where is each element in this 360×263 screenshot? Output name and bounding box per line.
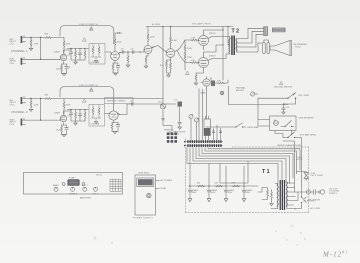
- ground switch S2: [258, 93, 296, 105]
- svg-text:10K: 10K: [217, 81, 221, 83]
- cap on drop line: [162, 119, 165, 120]
- ground under V1A: [62, 74, 66, 76]
- svg-text:PILOT LIGHT: PILOT LIGHT: [311, 175, 324, 177]
- junction dots tone: [70, 48, 71, 49]
- svg-text:450V: 450V: [246, 192, 251, 194]
- ext amp switch: [283, 132, 298, 138]
- cathode resistor R4 + cap: [61, 64, 72, 74]
- input jack J1: [21, 35, 26, 43]
- resistor R12 68K: [44, 95, 52, 100]
- tone box ch1: [89, 44, 105, 65]
- svg-text:UNDER CHASSIS CONN.: UNDER CHASSIS CONN.: [277, 144, 302, 147]
- coupling cap C4: [131, 49, 135, 54]
- speaker plug pins: [263, 40, 270, 54]
- wire from output ground to switch: [229, 86, 289, 105]
- tone cap C11: [67, 110, 73, 118]
- svg-text:VOLUME: VOLUME: [91, 123, 100, 125]
- svg-text:POWER SUPPLY: POWER SUPPLY: [133, 218, 153, 220]
- input jack J2: [21, 57, 26, 65]
- svg-text:FUSE: FUSE: [161, 188, 167, 190]
- knob BASS: [53, 184, 59, 191]
- wires strip to B+ bus: [190, 148, 244, 187]
- low cut arc channel 1: [60, 26, 114, 44]
- grid resistor lower 6V6: [191, 60, 199, 63]
- wire to plate node ch2: [41, 98, 164, 100]
- dashed chassis border right: [308, 147, 310, 213]
- V2B plate feed: [113, 105, 115, 108]
- terminal strip row 2: [184, 144, 223, 147]
- ps box outline: [135, 175, 156, 215]
- tone network ch1 top rail: [67, 48, 89, 50]
- svg-text:LOW CUT SWITCH: LOW CUT SWITCH: [79, 24, 98, 26]
- ground switch cap to gnd: [282, 104, 296, 114]
- ground under V1B: [62, 135, 66, 137]
- tube V2B: [109, 108, 120, 123]
- knob TREBLE: [69, 187, 78, 195]
- input jack J3 labels: [10, 100, 17, 106]
- ch2 output wire: [118, 104, 163, 115]
- svg-text:100K: 100K: [172, 40, 177, 42]
- connector label dark: [272, 28, 286, 33]
- svg-text:AC CORD: AC CORD: [311, 207, 321, 210]
- tone resistor R5: [75, 49, 77, 61]
- can capacitor: [203, 116, 210, 140]
- bias feed wires down: [199, 89, 207, 141]
- master volume pot: [158, 102, 166, 109]
- input jack J1 labels: [10, 39, 17, 45]
- bias resistors right: [217, 80, 228, 84]
- tone bottom rail ch2: [71, 117, 85, 123]
- plate resistor R13: [63, 99, 71, 112]
- svg-text:10K: 10K: [197, 183, 201, 185]
- output connector hatched: [264, 27, 268, 36]
- pilot lamp small 2: [82, 183, 85, 186]
- wire box to V2 grid: [105, 51, 111, 53]
- svg-text:12AX7: 12AX7: [54, 51, 61, 54]
- bus resistor 2: [215, 183, 224, 187]
- filter cap 3: [223, 185, 235, 201]
- V2 plate resistor: [114, 37, 122, 49]
- svg-text:EXT. SPKR.: EXT. SPKR.: [299, 95, 311, 97]
- svg-text:450V: 450V: [192, 192, 197, 194]
- note text: [169, 131, 186, 136]
- tone cap C2: [78, 49, 82, 61]
- wire plate to tone network: [64, 49, 71, 54]
- svg-text:68K: 68K: [45, 95, 49, 97]
- T1 leads: [271, 183, 302, 209]
- tone cap C1: [67, 49, 73, 57]
- svg-text:CATH. BIAS: CATH. BIAS: [247, 126, 259, 129]
- svg-text:CHANNEL 2: CHANNEL 2: [11, 111, 28, 114]
- terminal strip row 1: [184, 140, 223, 143]
- fan wire 1: [187, 148, 278, 184]
- svg-text:GROUND SWITCH: GROUND SWITCH: [274, 87, 293, 89]
- tone bottom rail + ground: [71, 56, 85, 62]
- wire down to line reverse: [258, 98, 270, 126]
- line reverse box: [270, 116, 297, 131]
- B+ drop rail: [162, 27, 164, 126]
- AC plug: [319, 190, 325, 194]
- svg-text:CH 1: CH 1: [10, 43, 16, 45]
- screen feed wires: [204, 27, 224, 81]
- plate wires to T2: [210, 37, 230, 60]
- svg-text:12AX7: 12AX7: [54, 112, 61, 115]
- T2 core: [231, 36, 235, 56]
- wire J4: [26, 119, 60, 121]
- svg-text:B+ 385V: B+ 385V: [152, 24, 161, 26]
- B+ to T2 center tap: [228, 27, 230, 46]
- label speaker: [294, 43, 308, 49]
- knob VOLUME 2: [93, 187, 100, 195]
- T1 core: [280, 180, 285, 210]
- svg-text:LINE REVERSE: LINE REVERSE: [299, 118, 315, 120]
- svg-text:22K: 22K: [215, 183, 219, 185]
- ps box leads: [156, 179, 173, 190]
- junction dots coupling: [127, 51, 128, 52]
- triangle marker bias: [186, 71, 190, 74]
- bias resistor 2 left of T1: [270, 190, 274, 206]
- svg-text:4.7M: 4.7M: [34, 44, 39, 46]
- T1 secondary winding: [286, 182, 288, 209]
- svg-text:6V6 AMPLIFIER: 6V6 AMPLIFIER: [192, 23, 211, 26]
- tone resistor R15: [75, 110, 77, 122]
- wire J1 to grid node: [26, 37, 41, 39]
- tone box internals: [91, 44, 102, 64]
- cathode R14: [61, 125, 69, 135]
- tube V4 6V6 upper: [199, 33, 211, 48]
- wire to plate node: [41, 37, 65, 39]
- V3 plate resistor: [147, 27, 155, 42]
- svg-text:220K: 220K: [187, 48, 192, 50]
- svg-text:HTRS.: HTRS.: [297, 159, 304, 161]
- svg-text:100K: 100K: [66, 44, 71, 46]
- ground G1: [29, 48, 33, 50]
- tremolo box: [105, 98, 134, 104]
- standby switch on cathode line: [206, 123, 259, 129]
- fan wire 7: [208, 148, 300, 171]
- fan wire 4: [199, 148, 290, 184]
- pilot lamp small: [62, 183, 65, 186]
- svg-text:100K: 100K: [117, 42, 122, 44]
- fuse F1: [302, 190, 317, 203]
- B+ rail top: [146, 26, 233, 28]
- svg-text:INTENSITY SPEED: INTENSITY SPEED: [107, 101, 126, 103]
- node vertical ch2: [31, 99, 41, 121]
- triangle marker 2: [83, 38, 87, 41]
- caps marks on verticals: [212, 131, 222, 132]
- pots above strip: [189, 114, 199, 140]
- filter cap 2: [206, 185, 218, 201]
- input jack J4 labels: [10, 120, 17, 126]
- triangle marker: [90, 27, 94, 30]
- tube V3: [144, 41, 154, 56]
- fuse in box: [274, 119, 279, 125]
- label 117V supply: [329, 189, 340, 195]
- low cut arc channel 2: [60, 87, 114, 105]
- coupling cap ch2: [130, 101, 134, 106]
- svg-text:CH 2: CH 2: [10, 124, 16, 126]
- svg-text:ADJUST: ADJUST: [236, 89, 245, 92]
- svg-text:T 1: T 1: [262, 169, 270, 175]
- V2 cathode: [112, 63, 120, 75]
- ps fuse holder: [147, 193, 152, 198]
- svg-text:68K: 68K: [45, 34, 49, 36]
- svg-text:BASS: BASS: [53, 184, 59, 187]
- svg-text:LOW CUT SWITCH: LOW CUT SWITCH: [79, 85, 98, 87]
- knob VOLUME 1: [82, 185, 89, 191]
- wire plate to tone ch2: [64, 110, 71, 115]
- svg-text:6V6GT: 6V6GT: [209, 56, 216, 58]
- svg-text:CH 2: CH 2: [10, 104, 16, 106]
- filter cap 1: [187, 185, 199, 201]
- bias cap hatched: [210, 78, 218, 86]
- spare lug stub: [174, 100, 182, 130]
- svg-text:4.7M: 4.7M: [34, 105, 39, 107]
- svg-text:8Ω SPEAKER: 8Ω SPEAKER: [294, 43, 308, 46]
- wire AC bottom: [295, 206, 302, 210]
- wire to V2B grid: [105, 113, 110, 115]
- panel outline: [24, 173, 123, 195]
- svg-text:ON-OFF SW.: ON-OFF SW.: [308, 200, 321, 202]
- B+ bus: [189, 185, 259, 187]
- speaker cone: [270, 41, 292, 56]
- tone rail ch2: [67, 109, 89, 111]
- plug cap marks: [311, 190, 320, 195]
- tube V2: [111, 48, 122, 63]
- fan wire 2: [193, 148, 282, 184]
- PI plate resistor: [170, 27, 178, 46]
- tube V1B: [60, 111, 67, 125]
- svg-text:220K: 220K: [150, 37, 155, 39]
- filter cap 4: [241, 185, 253, 201]
- coupling cap C3: [121, 49, 125, 54]
- T2 secondary leads: [237, 28, 264, 52]
- svg-text:1.5K: 1.5K: [191, 60, 196, 62]
- switch in box: [281, 121, 294, 128]
- ground G2: [29, 109, 33, 111]
- ventilation grille: [110, 179, 121, 191]
- svg-text:6V6GT: 6V6GT: [209, 33, 216, 35]
- junction dots: [40, 37, 41, 38]
- wire J3: [26, 98, 41, 100]
- ps transformer hatched: [137, 178, 154, 187]
- heater tap verticals: [220, 161, 248, 183]
- V2B cathode: [111, 123, 120, 134]
- tube V1A: [60, 50, 67, 64]
- ch2 wire into chassis: [163, 103, 176, 105]
- fan wire 6: [205, 148, 297, 175]
- wire node vertical: [31, 38, 41, 60]
- divider resistors 220K: [184, 40, 192, 53]
- svg-text:220K: 220K: [187, 57, 192, 59]
- input jack J3: [21, 96, 26, 104]
- triangle marker 2 ch2: [83, 99, 87, 102]
- bias tube V7: [201, 77, 210, 89]
- tone resistor R6: [84, 49, 86, 61]
- svg-text:BIAS: BIAS: [201, 92, 206, 95]
- V2 top feed: [115, 32, 122, 36]
- svg-text:GZ 34: GZ 34: [96, 174, 103, 176]
- dashed chassis border left: [185, 139, 187, 213]
- tone resistor R16: [84, 110, 86, 122]
- tone box ch2 internals: [91, 105, 102, 125]
- small verticals right of can: [214, 125, 221, 140]
- faint smudge: [93, 225, 306, 246]
- triangle marker ground switch: [280, 82, 283, 85]
- plate resistor R3 100K: [63, 38, 71, 51]
- svg-text:CHANNEL 1: CHANNEL 1: [11, 50, 28, 53]
- pilot light: [304, 173, 324, 181]
- svg-text:CH 1: CH 1: [10, 63, 16, 65]
- triangle marker ch2: [90, 88, 94, 91]
- svg-text:VOLUME: VOLUME: [91, 62, 100, 64]
- bias resistor left of T1: [258, 188, 268, 200]
- svg-text:450V: 450V: [211, 192, 216, 194]
- svg-text:T 2: T 2: [232, 29, 240, 35]
- junction to remote block: [163, 126, 172, 132]
- svg-text:450V: 450V: [228, 192, 233, 194]
- resistor R2 68K: [44, 34, 52, 39]
- wires from box down to AC: [275, 131, 302, 193]
- cathode cluster V4 V5: [194, 48, 203, 85]
- bus resistor 1: [197, 183, 206, 187]
- tone box ch2: [89, 105, 105, 127]
- dashed chassis border top: [232, 146, 309, 148]
- wire PI to grids: [177, 40, 191, 63]
- remote connector block: [164, 130, 177, 143]
- PI tail resistors: [160, 60, 171, 77]
- svg-text:100K: 100K: [66, 105, 71, 107]
- svg-text:FUSE: FUSE: [69, 177, 75, 179]
- test point: [220, 91, 224, 95]
- divider resistor 2: [184, 52, 192, 70]
- on-off switch S1: [301, 192, 321, 206]
- svg-text:PLUG: PLUG: [295, 47, 301, 49]
- resistor R1 470K: [30, 39, 38, 47]
- input jack J2 labels: [10, 59, 17, 65]
- grid resistor upper 6V6: [191, 38, 199, 41]
- T2 secondary winding: [236, 39, 238, 53]
- resistor to ground at mixer: [126, 52, 130, 67]
- tone cap C12: [78, 110, 82, 122]
- tube V6 phase inverter: [166, 45, 177, 60]
- svg-text:TREBLE: TREBLE: [69, 193, 78, 195]
- wire heater to pilot: [297, 172, 307, 173]
- svg-text:VOL 2: VOL 2: [93, 193, 100, 195]
- tube V5 6V6 lower: [199, 55, 211, 70]
- bus resistor 3: [232, 183, 241, 187]
- svg-text:1/2 W 10%: 1/2 W 10%: [169, 134, 179, 136]
- fan wire 3: [196, 148, 286, 183]
- label 6.3V heaters: [297, 157, 304, 161]
- svg-text:AMPLIFIER: AMPLIFIER: [80, 197, 91, 200]
- dashed chassis border bottom: [186, 212, 309, 214]
- resistor R11 470K: [30, 100, 38, 108]
- T2 primary winding: [229, 37, 231, 55]
- svg-text:VOL 1: VOL 1: [82, 185, 89, 187]
- nameplate dark: [67, 177, 79, 186]
- mixer resistors into PI: [152, 46, 167, 53]
- fan wire 5: [202, 148, 293, 179]
- wire J2 to tube grid: [26, 58, 60, 60]
- coupling wire ch1 to mixer: [119, 50, 144, 53]
- svg-text:AC POWER: AC POWER: [161, 179, 173, 182]
- input jack J4: [21, 118, 26, 126]
- T1 primary winding: [277, 184, 279, 209]
- svg-text:1.5K: 1.5K: [191, 38, 196, 40]
- hum balance pot: [236, 87, 258, 97]
- V3 cathode: [144, 56, 148, 68]
- svg-text:GZ34 RECT.: GZ34 RECT.: [138, 173, 150, 175]
- svg-text:EXT. AMP. SPKR.: EXT. AMP. SPKR.: [300, 134, 317, 137]
- svg-text:SUPPLY: SUPPLY: [329, 193, 338, 195]
